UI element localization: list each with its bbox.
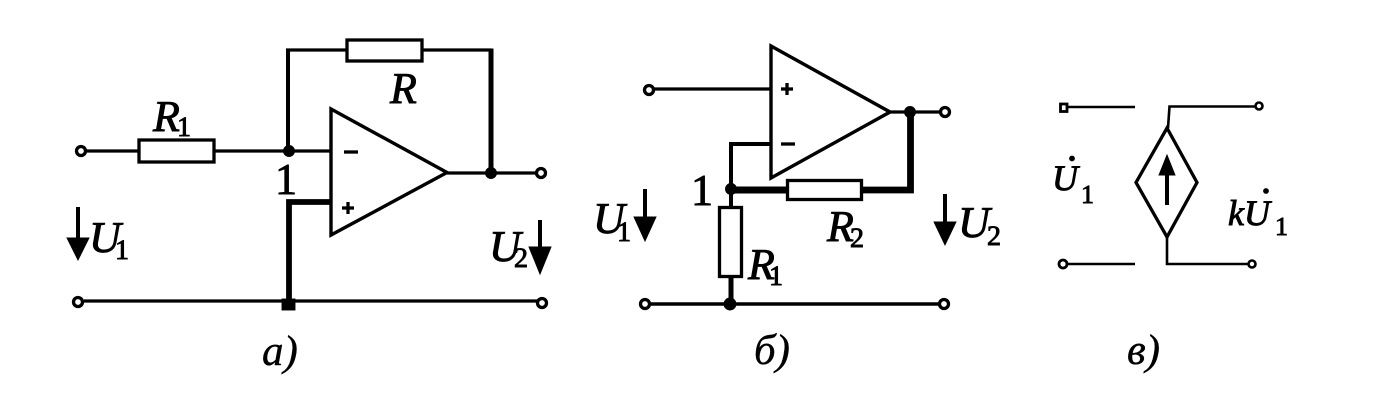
terminal bottom right v: [1249, 261, 1256, 268]
terminal input a left: [77, 147, 86, 156]
wire R2 to output thick: [861, 112, 911, 190]
wire node1 to R2 thick: [731, 187, 788, 194]
node 1 label b: [695, 176, 711, 205]
label U1 b: [597, 204, 629, 241]
caption b): [756, 333, 789, 373]
junction dot rail b: [724, 298, 736, 310]
op-amp A2: [771, 46, 890, 178]
source arrow: [1159, 155, 1175, 205]
resistor R2: [788, 181, 863, 248]
node 1 junction dot: [284, 146, 295, 157]
arrow U1 a: [67, 207, 89, 260]
controlled source diamond: [1136, 128, 1197, 237]
wire feedback top right: [423, 48, 491, 51]
wire inverting input: [731, 144, 771, 189]
terminal output a: [537, 169, 546, 178]
label U1 dotted v: [1055, 156, 1092, 203]
wire R1 to rail: [729, 278, 734, 301]
terminal bottom right b: [940, 300, 949, 309]
wire noninverting input thick: [289, 202, 331, 299]
wire output b: [890, 110, 941, 113]
label kU1 dotted v: [1229, 188, 1286, 235]
wire output: [447, 171, 537, 174]
terminal bottom left a: [74, 298, 83, 307]
terminal bottom right a: [538, 299, 547, 308]
wire top right v: [1168, 107, 1255, 129]
terminal input b: [645, 86, 654, 95]
arrow U2 b: [934, 194, 956, 245]
node 1 junction dot b: [726, 184, 737, 195]
terminal top right v: [1256, 103, 1263, 110]
wire input to R1: [86, 149, 139, 152]
wire node1 to R1: [729, 189, 733, 206]
wire node1 up to feedback: [286, 50, 290, 151]
terminal output b: [941, 108, 950, 117]
junction square on bottom rail: [282, 299, 295, 310]
wire input to noninverting: [654, 87, 771, 90]
junction dot output b: [905, 107, 916, 118]
resistor R1 b: [720, 208, 782, 286]
wire top left v: [1068, 106, 1135, 109]
op-amp A1: [331, 109, 447, 235]
caption v): [1128, 334, 1158, 373]
bottom rail a: [84, 299, 537, 302]
resistor R: [347, 40, 422, 103]
bottom rail b: [649, 302, 940, 306]
label U2 a: [493, 232, 527, 267]
wire bottom right v: [1167, 237, 1248, 264]
arrow U1 b: [634, 189, 656, 241]
wire bottom left v: [1068, 263, 1135, 266]
label U1 a: [93, 223, 127, 259]
node 1 label: [279, 165, 295, 194]
terminal bottom left b: [641, 300, 650, 309]
arrow U2 a: [529, 220, 551, 274]
label U2 b: [962, 208, 1000, 245]
wire feedback right vertical: [489, 49, 494, 174]
wire R1 to inverting input: [214, 149, 331, 152]
terminal square top left v: [1061, 104, 1068, 112]
resistor R1: [139, 102, 214, 162]
terminal bottom left v: [1059, 260, 1067, 268]
wire feedback top left: [286, 48, 346, 51]
caption a): [263, 335, 296, 374]
junction dot output: [486, 168, 497, 179]
